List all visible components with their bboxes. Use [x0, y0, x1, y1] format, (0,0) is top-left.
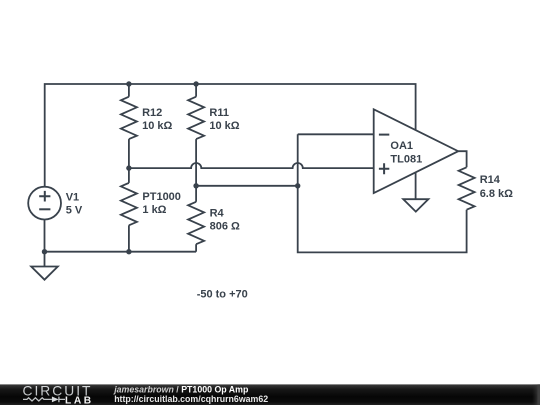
svg-text:http://circuitlab.com/cqhrurn6: http://circuitlab.com/cqhrurn6wam62 — [114, 394, 268, 404]
svg-text:R12: R12 — [142, 107, 162, 119]
svg-text:TL081: TL081 — [390, 153, 422, 165]
svg-text:R4: R4 — [210, 208, 225, 220]
svg-text:R11: R11 — [209, 107, 229, 119]
svg-text:LAB: LAB — [65, 396, 94, 405]
svg-text:-50 to +70: -50 to +70 — [197, 289, 248, 301]
svg-text:R14: R14 — [480, 174, 501, 186]
svg-text:OA1: OA1 — [390, 140, 413, 152]
svg-text:5 V: 5 V — [66, 204, 83, 216]
svg-text:1 kΩ: 1 kΩ — [142, 204, 166, 216]
svg-text:jamesarbrown / PT1000 Op Amp: jamesarbrown / PT1000 Op Amp — [113, 384, 249, 394]
svg-text:PT1000: PT1000 — [142, 191, 181, 203]
svg-text:V1: V1 — [66, 191, 79, 203]
svg-text:10 kΩ: 10 kΩ — [209, 120, 239, 132]
svg-text:6.8 kΩ: 6.8 kΩ — [480, 188, 513, 200]
svg-text:10 kΩ: 10 kΩ — [142, 120, 172, 132]
svg-text:806 Ω: 806 Ω — [210, 221, 240, 233]
